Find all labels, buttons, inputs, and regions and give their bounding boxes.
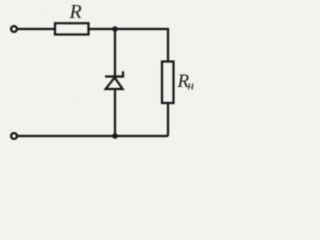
wire bottom	[18, 135, 168, 137]
label RH	[177, 71, 194, 93]
wire diode branch bottom	[114, 89, 116, 136]
wire right vertical bottom	[167, 103, 169, 136]
wire top to corner	[89, 29, 169, 62]
resistor RH	[162, 62, 174, 104]
svg-text:R: R	[69, 1, 82, 23]
svg-text:н: н	[188, 78, 194, 93]
terminal top-left	[11, 26, 17, 32]
node B bottom junction	[112, 133, 118, 139]
zener diode VD1	[105, 71, 123, 89]
resistor R1	[55, 23, 89, 34]
label R	[69, 1, 82, 23]
wire input top	[18, 28, 55, 30]
terminal bottom-left	[11, 133, 17, 139]
wire diode branch top	[114, 29, 116, 77]
node A top junction	[112, 26, 118, 32]
